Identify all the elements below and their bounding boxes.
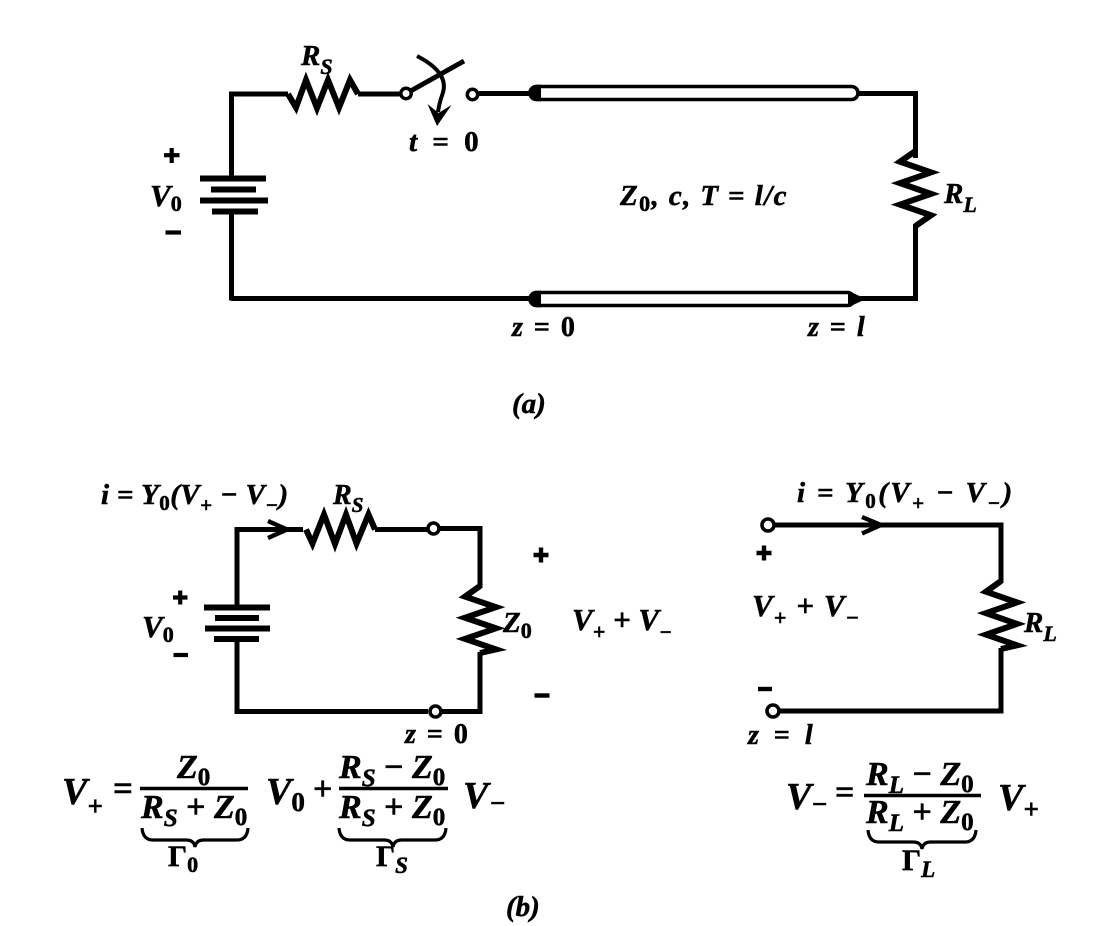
terminal circle top (b right) bbox=[762, 519, 774, 531]
transmission line bottom conductor (a) bbox=[528, 291, 866, 307]
label − terminal (b left) bbox=[535, 693, 550, 697]
resistor RL (b right) bbox=[986, 581, 1017, 649]
equation left: V+ = Z0/(RS+Z0) V0 + (RS−Z0)/(RS+Z0) V− bbox=[62, 749, 506, 832]
label V0 (a source) bbox=[150, 178, 182, 216]
label i = Y0(V+ − V−) (b left) bbox=[101, 479, 289, 517]
label + (b left source) bbox=[173, 591, 188, 605]
wire top left with arrow (b left) bbox=[237, 521, 303, 608]
wire left vertical top segment (a) bbox=[229, 94, 234, 178]
label RS (b left resistor) bbox=[332, 480, 363, 517]
label V0 (b left source) bbox=[142, 609, 174, 647]
transmission line top conductor (a) bbox=[528, 85, 858, 101]
label node z = 0 (a) bbox=[511, 312, 577, 343]
label V+ + V− (b left) bbox=[572, 602, 672, 644]
svg-text:=: = bbox=[113, 769, 133, 808]
label node z = l (b right) bbox=[747, 720, 817, 751]
label RL (a) bbox=[943, 178, 977, 217]
terminal circle bottom (b right) bbox=[767, 705, 779, 717]
svg-text:RL + Z0: RL + Z0 bbox=[865, 794, 974, 837]
wire top left horizontal (a) bbox=[229, 92, 288, 97]
label V+ + V− (b right) bbox=[752, 588, 860, 630]
svg-text:=: = bbox=[835, 774, 854, 811]
wire line to top right corner (a) bbox=[857, 94, 916, 159]
wire top with arrow (b right) bbox=[775, 517, 1002, 583]
label t = 0 (a switch) bbox=[409, 126, 483, 158]
label + (a source) bbox=[164, 148, 180, 163]
svg-text:RS + Z0: RS + Z0 bbox=[140, 789, 247, 832]
label − terminal (b right) bbox=[758, 687, 772, 691]
svg-text:RL − Z0: RL − Z0 bbox=[865, 756, 974, 799]
label Z0 (b left) bbox=[502, 607, 532, 643]
underbrace Gamma0 bbox=[142, 828, 248, 877]
switch terminal circle left (a) bbox=[401, 88, 411, 98]
svg-text:RS − Z0: RS − Z0 bbox=[338, 749, 445, 792]
label RS (a) bbox=[300, 40, 333, 79]
svg-text:RS + Z0: RS + Z0 bbox=[338, 789, 445, 832]
label RL (b right) bbox=[1023, 607, 1057, 646]
svg-text:z = l: z = l bbox=[807, 312, 867, 343]
equation right: V− = (RL−Z0)/(RL+Z0) V+ bbox=[786, 756, 1039, 837]
svg-text:+: + bbox=[313, 771, 332, 808]
wire terminal to corner (b left) bbox=[439, 529, 480, 589]
wire resistor to terminal (b left) bbox=[375, 527, 428, 532]
label i = Y0(V+ − V−) (b right) bbox=[797, 477, 1015, 515]
caption (b) bbox=[506, 891, 540, 923]
svg-text:t = 0: t = 0 bbox=[409, 126, 483, 158]
svg-text:z = 0: z = 0 bbox=[404, 719, 470, 750]
wire resistor to switch (a) bbox=[358, 92, 400, 97]
label + terminal (b right) bbox=[757, 546, 772, 561]
label + terminal (b left) bbox=[534, 548, 549, 563]
battery V0 (a) bbox=[200, 179, 268, 212]
terminal circle bottom (b left) bbox=[430, 706, 441, 717]
underbrace GammaL bbox=[868, 830, 976, 882]
wire bottom right (b left) bbox=[441, 652, 480, 712]
wire bottom horizontal (a) bbox=[231, 296, 534, 301]
wire switch to line (a) bbox=[479, 91, 534, 96]
svg-text:z = 0: z = 0 bbox=[511, 312, 577, 343]
label node z = 0 (b left) bbox=[404, 719, 470, 750]
battery V0 (b left) bbox=[204, 608, 270, 640]
resistor Z0 (b left) bbox=[465, 586, 496, 653]
wire left bottom segment (b left) bbox=[237, 640, 428, 712]
switch terminal circle right (a) bbox=[467, 89, 477, 99]
label − (b left source) bbox=[174, 653, 189, 657]
terminal circle top (b left) bbox=[428, 523, 439, 534]
switch blade (a) bbox=[412, 61, 465, 91]
underbrace GammaS bbox=[339, 828, 446, 878]
resistor RS (a) bbox=[288, 80, 358, 108]
label node z = l (a) bbox=[807, 312, 867, 343]
wire left vertical bottom segment (a) bbox=[232, 212, 234, 298]
label Z0, c, T = l/c (a) bbox=[619, 180, 788, 216]
wire right vertical bottom (a) bbox=[860, 224, 916, 299]
wire right bottom (b right) bbox=[779, 648, 1001, 711]
label − (a source) bbox=[166, 230, 182, 234]
resistor RL (a) bbox=[900, 151, 931, 226]
svg-text:z = l: z = l bbox=[747, 720, 817, 751]
svg-text:(a): (a) bbox=[512, 388, 546, 420]
resistor RS (b left) bbox=[306, 515, 375, 545]
switch closing arrow (a) bbox=[417, 56, 452, 126]
svg-text:(b): (b) bbox=[506, 891, 540, 923]
caption (a) bbox=[512, 388, 546, 420]
